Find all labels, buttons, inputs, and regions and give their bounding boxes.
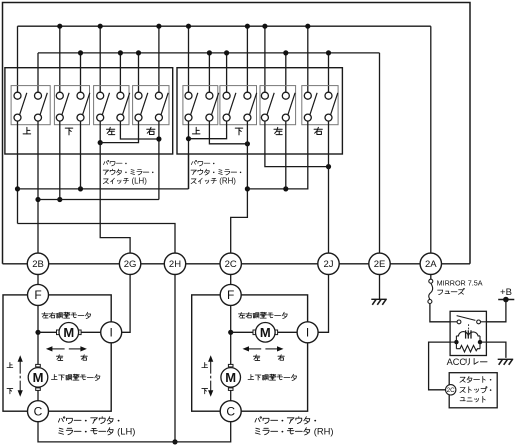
svg-text:2G: 2G	[124, 259, 137, 270]
svg-text:2C: 2C	[225, 259, 237, 270]
svg-text:(RH): (RH)	[217, 177, 236, 186]
svg-text:2H: 2H	[169, 259, 181, 270]
svg-text:+B: +B	[500, 287, 512, 298]
svg-text:M: M	[63, 325, 74, 340]
svg-text:I: I	[110, 326, 113, 340]
svg-text:F: F	[34, 288, 41, 302]
svg-text:2J: 2J	[323, 259, 333, 270]
svg-text:C: C	[226, 404, 235, 418]
svg-text:MIRROR 7.5A: MIRROR 7.5A	[437, 278, 483, 287]
svg-text:2E: 2E	[374, 259, 386, 270]
svg-text:M: M	[260, 325, 271, 340]
svg-text:(RH): (RH)	[311, 426, 333, 437]
svg-text:C: C	[34, 404, 43, 418]
svg-text:F: F	[227, 288, 234, 302]
svg-text:(LH): (LH)	[129, 177, 147, 186]
svg-text:2A: 2A	[425, 259, 437, 270]
svg-text:2C: 2C	[447, 387, 456, 394]
svg-text:I: I	[306, 326, 309, 340]
svg-text:(LH): (LH)	[115, 426, 136, 437]
svg-text:M: M	[33, 370, 44, 385]
svg-text:ACC: ACC	[447, 357, 467, 367]
svg-text:M: M	[225, 370, 236, 385]
svg-text:2B: 2B	[32, 259, 44, 270]
